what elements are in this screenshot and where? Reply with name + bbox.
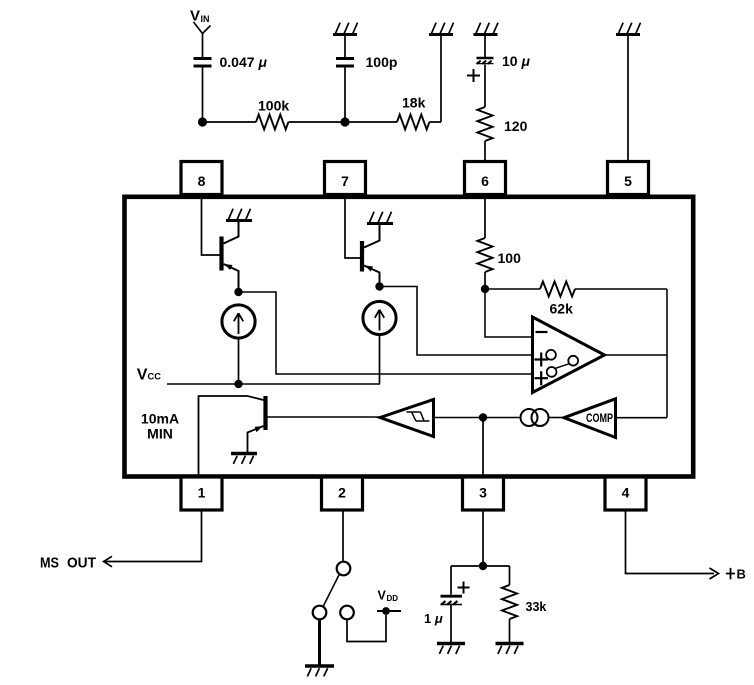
net label VIN <box>190 8 210 25</box>
input arrowhead at VIN <box>194 22 211 34</box>
current source I1 <box>222 305 255 338</box>
resistor R1 100k <box>256 115 288 130</box>
wire C1 to node A <box>202 68 204 123</box>
transistor Q3 collector <box>199 396 264 475</box>
+B arrowhead <box>710 568 719 579</box>
wire node E to op-amp inverting input <box>485 289 531 337</box>
svg-text:1: 1 <box>198 485 206 501</box>
wire pin 7 to Q2 base <box>345 196 360 258</box>
wire pin 6 into IC <box>484 196 486 238</box>
ground above pin 5 <box>616 23 641 35</box>
svg-text:7: 7 <box>341 173 349 189</box>
svg-text:18k: 18k <box>402 95 426 111</box>
VDD node stub wire <box>377 610 401 612</box>
ground below switch <box>305 666 334 676</box>
wire node G to C4 <box>450 566 452 595</box>
resistor R3 120 <box>477 107 492 141</box>
net label Vcc <box>137 367 162 384</box>
svg-text:100p: 100p <box>366 54 398 70</box>
ground below C4 <box>437 644 465 654</box>
wire node B to R2 <box>345 121 397 123</box>
wire node E to R5 <box>485 288 540 290</box>
svg-text:V: V <box>378 589 387 603</box>
wire ground to pin 5 <box>627 36 629 160</box>
svg-text:4: 4 <box>622 485 630 501</box>
wire node G horizontal <box>451 565 510 567</box>
op-amp minus glyph <box>536 331 548 333</box>
pin 2 <box>322 477 363 510</box>
wire node F to pin 3 <box>482 418 484 477</box>
op-amp plus glyph lower <box>535 371 549 385</box>
ground at Q1 collector <box>226 209 252 221</box>
transistor Q1 collector <box>224 222 239 244</box>
svg-text:DD: DD <box>387 594 399 603</box>
wire switch left throw to ground <box>318 620 321 665</box>
transistor Q2 emitter <box>364 266 380 287</box>
switch SW1 pole circle <box>337 562 351 576</box>
wire comparator input <box>616 417 668 419</box>
node G junction dot <box>479 562 487 570</box>
svg-text:8: 8 <box>198 173 206 189</box>
capacitor C3 polarity plus <box>467 69 480 82</box>
svg-text:33k: 33k <box>526 600 547 614</box>
ground at Q2 collector <box>367 212 393 224</box>
svg-text:COMP: COMP <box>586 411 613 425</box>
svg-text:3: 3 <box>479 485 487 501</box>
svg-text:62k: 62k <box>550 301 574 317</box>
wire R3 to pin 6 <box>484 141 486 160</box>
ground above C3 <box>474 23 499 35</box>
svg-text:MS: MS <box>40 555 59 572</box>
wire right throw to VDD node <box>347 615 386 642</box>
wire VIN to C1 <box>202 34 204 58</box>
buffer U3 triangle <box>380 400 434 437</box>
pin 5 <box>608 162 649 195</box>
capacitor C1 0.047u plates <box>194 59 212 67</box>
svg-text:V: V <box>137 367 148 384</box>
svg-text:IN: IN <box>201 14 210 24</box>
node E junction dot <box>481 285 489 293</box>
pin 3 <box>463 477 504 510</box>
comparator U4 triangle <box>564 399 616 438</box>
VDD node dot <box>382 607 390 615</box>
capacitor C4 1u plates <box>441 595 463 598</box>
resistor R5 62k <box>540 282 575 297</box>
svg-text:B: B <box>737 567 746 582</box>
wire pin 1 to MS OUT <box>105 510 202 562</box>
wire node A to R1 <box>203 121 257 123</box>
transistor Q3 emitter <box>248 426 264 452</box>
op-amp output wire <box>605 354 668 356</box>
ground above C2 <box>333 23 358 35</box>
wire pin 4 to +B <box>626 510 715 574</box>
junction dot on Vcc rail <box>234 380 242 388</box>
wire I2 to Vcc rail <box>379 335 381 384</box>
ground below R6 <box>496 644 524 654</box>
svg-text:0.047 μ: 0.047 μ <box>220 54 268 70</box>
wire C3 to R3 <box>484 65 486 108</box>
transistor Q2 collector <box>364 225 380 248</box>
svg-text:5: 5 <box>624 173 632 189</box>
pin 8 <box>181 162 222 195</box>
wire node G to R6 <box>509 566 511 585</box>
wire buffer input line <box>434 417 521 419</box>
transistor Q1 base bar <box>219 237 223 271</box>
resistor R2 18k <box>397 115 429 130</box>
pin 1 <box>181 477 222 510</box>
wire C4 to ground <box>450 605 452 642</box>
svg-text:6: 6 <box>481 173 489 189</box>
wire R6 to ground <box>509 619 511 642</box>
capacitor C3 10u plates <box>477 57 494 59</box>
op-amp chopper wiper <box>555 364 569 369</box>
resistor R6 33k <box>502 585 517 619</box>
svg-text:100: 100 <box>498 250 522 266</box>
net label VDD <box>378 589 399 604</box>
wire M1 to comparator <box>549 417 564 419</box>
wire pin 2 to switch <box>342 510 344 562</box>
current source I2 <box>363 301 396 334</box>
wire R1 to node B <box>288 121 345 123</box>
wire buffer to Q3 base <box>268 416 381 418</box>
transistor Q1 emitter <box>224 264 239 292</box>
wire pin 3 down <box>482 510 484 566</box>
wire pin 8 to Q1 base <box>202 196 220 255</box>
op-amp chopper switch circles <box>546 350 556 360</box>
wire R2 to ground riser <box>429 36 441 122</box>
svg-text:V: V <box>190 8 200 25</box>
IC body outline U1 <box>125 197 694 477</box>
wire R4 to node E <box>484 272 486 289</box>
wire node C to op-amp lower input <box>239 292 532 374</box>
svg-text:10 μ: 10 μ <box>502 53 530 69</box>
wire R5 to feedback riser <box>575 288 667 290</box>
svg-text:1 μ: 1 μ <box>424 611 443 626</box>
wire I1 to Vcc rail <box>238 338 240 384</box>
buffer U3 hysteresis glyph <box>407 412 430 421</box>
svg-text:120: 120 <box>504 118 528 134</box>
svg-text:CC: CC <box>148 372 162 382</box>
wire node D to op-amp middle input <box>380 287 532 356</box>
svg-text:2: 2 <box>338 485 346 501</box>
op-amp plus glyph upper <box>535 353 549 367</box>
capacitor C2 100p plates <box>336 59 354 67</box>
pin 4 <box>605 477 646 510</box>
node F junction dot (pin3 net) <box>479 413 487 421</box>
wire node B up to C2 <box>344 68 346 123</box>
switch SW1 throw circle right <box>340 606 354 620</box>
pin 6 <box>465 162 506 195</box>
transistor Q2 base bar <box>360 241 364 272</box>
node C junction dot <box>234 288 242 296</box>
resistor R4 100 <box>477 238 492 272</box>
switch SW1 throw circle left <box>313 606 327 620</box>
node A junction dot <box>198 117 207 126</box>
label 10mA MIN <box>141 411 179 442</box>
node D junction dot <box>375 282 383 290</box>
svg-text:100k: 100k <box>258 98 289 114</box>
pin 7 <box>325 162 366 195</box>
ground at Q3 emitter <box>231 454 257 464</box>
ground above R2 <box>429 23 454 35</box>
svg-text:10mA: 10mA <box>141 411 179 427</box>
net label +B <box>726 568 735 579</box>
wire ground to C3 <box>484 36 486 57</box>
svg-text:MIN: MIN <box>147 426 173 442</box>
op-amp U2 triangle <box>533 317 605 393</box>
svg-text:OUT: OUT <box>67 555 96 572</box>
MS OUT arrowhead <box>104 556 112 567</box>
transistor Q3 base bar <box>263 396 267 430</box>
current mirror M1 circles <box>521 409 538 426</box>
node B junction dot (pin7 net) <box>340 117 349 126</box>
wire C2 to ground <box>344 36 346 57</box>
capacitor C4 polarity plus <box>458 582 470 594</box>
feedback riser wire <box>666 289 668 418</box>
Vcc rail wire <box>167 383 380 385</box>
switch SW1 blade <box>323 574 339 606</box>
